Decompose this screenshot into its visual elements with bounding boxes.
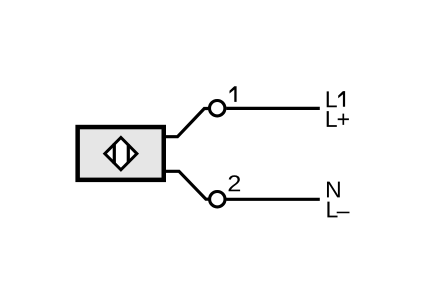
label L+ xyxy=(327,111,337,127)
pin number 1 xyxy=(230,86,237,102)
label N xyxy=(327,182,340,198)
sensor symbol left bar xyxy=(113,143,116,164)
terminal 1 circle xyxy=(210,101,225,116)
label L1 xyxy=(327,91,337,107)
pin number 2 xyxy=(229,175,241,191)
wire from sensor to terminal 2 xyxy=(163,171,209,199)
wire terminal 1 to L1 xyxy=(226,107,319,110)
sensor body (proximity switch) xyxy=(78,127,164,180)
label L&#8211; xyxy=(327,202,337,218)
proximity sensor symbol (diamond) xyxy=(105,138,137,170)
terminal 2 circle xyxy=(210,192,225,207)
wire terminal 2 to N xyxy=(226,198,319,201)
sensor symbol right bar xyxy=(127,144,130,163)
wire from sensor to terminal 1 xyxy=(163,109,208,137)
